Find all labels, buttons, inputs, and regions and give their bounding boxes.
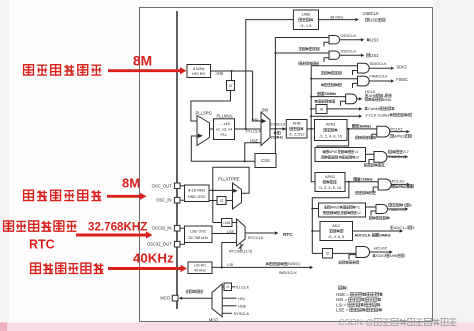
label PCLK2 — [392, 179, 405, 184]
node SYSCLK junction to I2S rail — [274, 128, 276, 130]
wire tap to ADC box — [312, 230, 320, 232]
svg-text:Cortex: Cortex — [368, 106, 380, 111]
label legend LSI — [336, 302, 380, 307]
gate AND HCLK enable — [346, 94, 357, 104]
svg-text:DMA: DMA — [383, 98, 392, 102]
arrow Cortex systick — [359, 107, 362, 110]
gate AND FSMC clock enable — [358, 76, 370, 86]
svg-text:HSE: HSE — [238, 304, 247, 309]
svg-text:48 MHz: 48 MHz — [330, 14, 343, 19]
background right gutter — [434, 0, 474, 331]
svg-text:SYSCLK: SYSCLK — [270, 122, 286, 127]
label peripheral clock enable I2S2 — [299, 62, 319, 65]
svg-text:40 kHz: 40 kHz — [194, 269, 206, 273]
label MCO pin — [160, 296, 170, 301]
block PLL multiplier — [214, 119, 235, 140]
label SYSCLK — [270, 122, 286, 127]
svg-text:LSI RC: LSI RC — [194, 264, 206, 268]
wire SYSCLK to AHB prescaler — [270, 128, 286, 130]
wire PCLK2 out — [391, 183, 406, 185]
wire tap to TIM2 box — [312, 208, 318, 210]
block CSS clock security — [255, 154, 276, 168]
label I2S3CLK — [341, 33, 357, 38]
svg-text:,: , — [338, 156, 339, 160]
node FSMC tap — [310, 78, 312, 80]
wire HCLK out — [357, 98, 359, 100]
label max 72MHz PCLK2 — [354, 177, 373, 181]
label HSI at SW input — [251, 117, 258, 122]
label to independent watchdog IWDG — [266, 262, 301, 266]
label red internal low speed clock — [31, 263, 104, 273]
label peripheral clock enable HCLK — [314, 100, 334, 103]
svg-text:USBCLK: USBCLK — [363, 11, 380, 16]
svg-text:/1, 2, 4, 8, 16: /1, 2, 4, 8, 16 — [320, 134, 342, 138]
node HSI junction to /2 — [230, 70, 232, 72]
label red external high speed clock — [24, 190, 102, 200]
label red 40KHz — [133, 251, 174, 266]
label I2S2CLK — [341, 49, 357, 54]
svg-text:TIMxCLK: TIMxCLK — [388, 207, 405, 212]
label PLLCLK MCO — [234, 285, 249, 290]
mux RTCSEL — [237, 219, 246, 246]
svg-text:40KHz: 40KHz — [133, 251, 174, 266]
red arrow to LSI — [108, 265, 187, 272]
label red 8M top — [133, 54, 152, 69]
label SW — [262, 107, 269, 112]
wire TIMXCLK enable stub — [369, 160, 374, 165]
wire PCLK1 — [347, 128, 377, 130]
node LSI junction — [221, 266, 223, 268]
arrow ADCCLK — [400, 229, 403, 232]
block divider /8 Cortex — [316, 105, 327, 114]
label SDIOCLK — [370, 61, 387, 66]
svg-text:I2S3: I2S3 — [370, 37, 379, 42]
label to I2S3 — [367, 37, 380, 42]
wire OSC_IN to HSE box — [180, 199, 185, 201]
wire I2S2CLK out — [340, 54, 361, 56]
wire HSE/128 into 128 box — [213, 222, 222, 224]
label FSMCCLK — [369, 74, 388, 79]
label peripheral clock enable TIMX — [364, 164, 384, 167]
svg-text:8M: 8M — [122, 176, 140, 191]
wire RTCSEL select stub with slash — [239, 244, 244, 251]
label legend HSI — [336, 297, 381, 302]
label PLLMUL — [217, 113, 234, 118]
svg-text:PLLCLK: PLLCLK — [246, 129, 261, 134]
arrow SDIO — [391, 67, 394, 70]
label to SDIO AHB interface — [373, 253, 405, 258]
wire PLLCLK up to USB prescaler — [246, 20, 294, 129]
svg-text:PLLXTPRE: PLLXTPRE — [218, 176, 240, 181]
label peripheral clock enable SDIO — [321, 71, 341, 74]
svg-text:/128: /128 — [223, 221, 230, 225]
svg-text:,: , — [340, 211, 341, 215]
svg-text:8M: 8M — [133, 54, 152, 69]
wire RTCCLK — [245, 232, 275, 234]
wire 128 to RTCSEL — [232, 222, 237, 224]
svg-text:/1, 2, 4, 8, 16: /1, 2, 4, 8, 16 — [319, 186, 341, 190]
gate AND TIMXCLK enable — [374, 152, 387, 163]
node FCLK tap — [310, 115, 312, 117]
svg-text:HSE OSC: HSE OSC — [188, 194, 206, 199]
svg-text:HSI: HSI — [217, 71, 224, 76]
svg-text:72MHz: 72MHz — [361, 178, 373, 182]
label TIMxCLK2 — [388, 207, 405, 212]
wire PLLXTPRE out loop — [213, 167, 249, 222]
pin OSC32_IN — [174, 225, 180, 231]
svg-text:OSC32_IN: OSC32_IN — [152, 226, 172, 231]
wire FCLK — [311, 115, 359, 117]
wire PCLK2 to TIM2 multiplier — [312, 182, 349, 254]
svg-text:ADCCLK: ADCCLK — [355, 234, 372, 238]
label peripheral clock enable I2S3 — [299, 47, 319, 50]
gate AND SDIO AHB — [356, 247, 370, 258]
label red 32.768KHZ — [88, 221, 147, 234]
svg-text:ADC: ADC — [332, 224, 340, 228]
label HCLK — [365, 89, 376, 94]
wire MCO SYSCLK stub — [222, 312, 232, 314]
wire HCLK/2 out — [370, 251, 389, 253]
block HSE oscillator 4-16MHz — [185, 185, 210, 202]
wire MCO HSI stub — [222, 297, 236, 299]
label red RTC — [29, 238, 55, 252]
background left gutter — [0, 0, 9, 331]
arrow into MCO pin — [179, 297, 182, 300]
svg-text:RTCCLK: RTCCLK — [248, 235, 264, 240]
arrow TIMXCLK — [405, 155, 408, 158]
svg-text:PLLSRC: PLLSRC — [196, 110, 212, 115]
wire TIMXCLK out — [387, 156, 405, 158]
wire SDIO AHB enable stub — [349, 255, 356, 260]
label peripheral clock enable PCLK2 — [356, 191, 376, 194]
svg-text:32.768 kHz: 32.768 kHz — [188, 235, 208, 240]
label red low speed external clock — [4, 221, 77, 231]
pin OSC_IN — [174, 197, 180, 203]
label TIMXCLK — [388, 154, 406, 159]
label max 72MHz line2 — [271, 135, 283, 140]
wire main pin bus vertical — [176, 11, 178, 309]
label OSC32_IN — [152, 226, 172, 231]
label ADCCLK max 14MHz — [355, 233, 391, 237]
label PLLXTPRE — [218, 176, 240, 181]
wire HCLK rail — [311, 66, 357, 129]
node HCLK gate tap — [310, 96, 312, 98]
svg-text:4-16 MHz: 4-16 MHz — [188, 187, 205, 192]
arrow TIMxCLK2 — [405, 207, 408, 210]
label PCLK1 — [390, 126, 403, 131]
wire SYSCLK rail up to I2S gates — [275, 38, 329, 129]
node HSE junction — [212, 189, 214, 191]
wire HSE output — [209, 189, 233, 191]
wire USB prescaler output — [319, 19, 356, 21]
wire I2S2 clock — [275, 52, 329, 54]
label LSI — [227, 262, 233, 267]
svg-text:HSI: HSI — [238, 296, 245, 301]
gate AND PCLK2 enable — [378, 179, 391, 190]
svg-text:AHB: AHB — [368, 94, 376, 98]
svg-text:72MHz: 72MHz — [271, 135, 283, 140]
label max line1 — [274, 131, 281, 134]
label red 8M second — [122, 176, 140, 191]
svg-text:USB: USB — [369, 17, 378, 22]
wire I2S3CLK out — [340, 39, 361, 41]
wire LSE to RTCSEL — [212, 233, 237, 235]
wire TIMxCLK2 enable stub — [371, 211, 376, 216]
wire LSI out to IWDG — [212, 266, 310, 268]
label IWDGCLK — [279, 270, 298, 275]
label red internal high speed clock — [24, 65, 102, 75]
gate AND TIMxCLK2 enable — [376, 205, 388, 214]
wire MCO HSE stub — [222, 305, 236, 307]
wire FSMC enable stub — [353, 83, 358, 88]
wire HCLK gate clock — [311, 96, 345, 98]
label FCLK Cortex free running clock — [366, 112, 411, 117]
label OSC_OUT — [152, 183, 172, 188]
wire SDIO enable stub — [353, 71, 358, 76]
wire LSI up to RTCSEL — [222, 243, 237, 268]
wire PLLSRC bottom feed — [191, 136, 255, 161]
label legend HSE — [336, 292, 383, 297]
svg-text:72MHz: 72MHz — [324, 92, 336, 96]
wire HSI to /2 divider — [231, 71, 233, 81]
svg-text:OSC32_OUT: OSC32_OUT — [147, 242, 172, 247]
label MCO under mux — [209, 317, 219, 322]
label to timers 2-7 — [388, 149, 409, 154]
mux PLLSRC — [197, 116, 210, 146]
svg-text:LSE: LSE — [227, 229, 235, 234]
svg-text::: : — [347, 285, 348, 290]
diagram frame — [140, 8, 433, 322]
label FSMC — [396, 77, 408, 82]
arrow IWDG — [310, 266, 313, 269]
arrow FCLK — [359, 115, 362, 118]
svg-text:FSMCCLK: FSMCCLK — [369, 74, 388, 79]
label RTCCLK — [248, 235, 264, 240]
block divider /2 HSI — [227, 81, 235, 91]
label peripheral clock enable TIMx2 — [369, 216, 389, 219]
label SYSCLK MCO — [234, 311, 250, 316]
svg-text:RTCSEL[1:0]: RTCSEL[1:0] — [229, 248, 252, 253]
svg-text:SDIOCLK: SDIOCLK — [370, 61, 387, 66]
wire HSI/2 to PLLSRC mux — [191, 91, 231, 122]
svg-text:/2: /2 — [220, 198, 223, 203]
label to Cortex system timer — [365, 106, 395, 111]
block divider /2 MCO — [224, 283, 232, 291]
wire MCO div2 stub — [222, 286, 224, 288]
svg-text:RTC: RTC — [283, 232, 293, 237]
svg-text:LSE OSC: LSE OSC — [190, 228, 207, 233]
wire I2S2 enable stub — [324, 58, 329, 62]
red arrow to OSC pins — [107, 193, 147, 200]
svg-text:=1: =1 — [354, 150, 358, 154]
node PCLK2 junction — [348, 181, 350, 183]
wire PCLK2 — [345, 181, 378, 183]
label PLLSRC — [196, 110, 212, 115]
svg-text:HCLK/2: HCLK/2 — [374, 246, 388, 251]
label legend title — [339, 285, 348, 290]
label to I2S2 — [367, 53, 380, 58]
block divider /2 HSE — [217, 197, 226, 205]
wire div8 out Cortex systick — [327, 108, 359, 110]
svg-text:x2, x3, x4: x2, x3, x4 — [216, 127, 233, 132]
label peripheral clock enable FSMC — [321, 83, 341, 86]
svg-text:..., x16: ..., x16 — [218, 121, 230, 126]
svg-text:FSMC: FSMC — [396, 77, 408, 82]
label 48 MHz — [330, 14, 343, 19]
wire HSE to /2 — [209, 200, 217, 202]
svg-text:PLL: PLL — [221, 132, 229, 137]
label to APB2 peripherals — [392, 184, 413, 189]
svg-text:/2: /2 — [226, 285, 229, 289]
svg-text:x2: x2 — [357, 211, 361, 215]
pin OSC_OUT — [174, 183, 180, 189]
wire AHB to APB1 — [307, 128, 315, 130]
svg-text:OSC_IN: OSC_IN — [156, 198, 171, 203]
wire PLL output PLLCLK to SW — [235, 128, 262, 130]
label PLLCLK — [246, 129, 261, 134]
label RTCSEL[1:0] — [229, 248, 252, 253]
svg-text:APB2: APB2 — [331, 206, 340, 210]
red arrow to HSI — [108, 67, 187, 74]
arrow to I2S2 — [361, 54, 364, 57]
wire ADCCLK out — [353, 230, 400, 232]
wire HSI output to right — [211, 70, 253, 72]
node HCLK rail junction — [310, 128, 312, 130]
label to APB1 peripherals — [391, 133, 412, 138]
svg-text:HSI: HSI — [251, 117, 258, 122]
wire HSI down to SW mux — [253, 71, 261, 121]
label peripheral clock enable SDIO AHB — [338, 261, 358, 264]
svg-text:CSDN @: CSDN @ — [339, 317, 374, 327]
block APB1 timer multiplier — [315, 148, 366, 162]
block ADC prescaler — [320, 222, 353, 241]
wire to div8 — [311, 108, 316, 110]
block USB prescaler — [293, 10, 318, 30]
label SDIO — [397, 64, 407, 69]
svg-text:/1, 2..512: /1, 2..512 — [289, 133, 305, 137]
label OSC32_OUT — [147, 242, 172, 247]
bottom left pink square — [0, 323, 7, 331]
svg-text:APB1: APB1 — [394, 133, 405, 138]
svg-text:SW: SW — [262, 107, 269, 112]
svg-text:PLLCLK: PLLCLK — [234, 285, 249, 290]
svg-text:LSI: LSI — [227, 262, 233, 267]
node ADC tap — [311, 230, 313, 232]
label to ADC 1 2 3 — [390, 225, 415, 230]
svg-text:IWDGCLK: IWDGCLK — [279, 270, 298, 275]
wire FSMCCLK out — [369, 80, 390, 82]
label LSE — [227, 229, 235, 234]
label OSC_IN — [156, 198, 171, 203]
svg-text:/2, 4, 6, 8: /2, 4, 6, 8 — [328, 235, 344, 239]
block APB2 prescaler — [315, 173, 345, 192]
label to AHB bus core — [365, 94, 392, 98]
svg-text:SDIO: SDIO — [376, 253, 386, 258]
label HSE at SW input — [250, 139, 259, 144]
arrow PCLK2 — [407, 183, 410, 186]
wire HSE to SW mux — [245, 143, 261, 162]
wire I2S3 enable stub — [324, 42, 329, 46]
node I2S2 tap — [274, 52, 276, 54]
label HCLK/2 — [374, 246, 388, 251]
arrow RTC — [275, 231, 278, 234]
svg-text:OSC_OUT: OSC_OUT — [152, 183, 172, 188]
svg-text:CSS: CSS — [261, 158, 270, 163]
block APB1 prescaler — [315, 120, 348, 141]
label to timers 1 and 8 — [389, 202, 413, 207]
gate AND I2S3 clock enable — [329, 36, 340, 44]
svg-text:(IWDG): (IWDG) — [287, 262, 301, 266]
svg-text:MCO: MCO — [160, 296, 170, 301]
wire PCLK1 out — [390, 131, 406, 133]
wire rail to APB2 — [311, 129, 315, 182]
pin MCO — [172, 295, 178, 301]
svg-text:LSE =: LSE = — [336, 307, 349, 312]
arrow PCLK1 — [406, 130, 409, 133]
svg-text:APB1: APB1 — [326, 122, 336, 126]
svg-text:PCLK1: PCLK1 — [390, 126, 403, 131]
bottom pink strip — [0, 323, 474, 331]
block LSI RC 40kHz — [188, 262, 212, 274]
wire HCLK enable stub — [341, 101, 346, 105]
watermark CSDN — [339, 317, 457, 327]
wire div2 to SDIO AHB gate — [333, 252, 357, 254]
node div8 tap — [310, 108, 312, 110]
label to USB interface — [366, 17, 385, 22]
svg-text:/1, 1.5: /1, 1.5 — [300, 23, 312, 28]
red arrow to OSC32 pins — [76, 231, 153, 238]
arrow into AHB prescaler — [283, 127, 286, 130]
block LSE oscillator 32.768kHz — [185, 226, 213, 243]
wire SDIOCLK out — [369, 67, 390, 69]
gate AND SDIO clock enable — [358, 63, 370, 73]
svg-text:I2S2: I2S2 — [370, 53, 379, 58]
wire OSC32_IN to LSE box — [180, 227, 185, 229]
wire PCLK2 enable stub — [373, 187, 378, 192]
arrow HCLK/2 — [389, 250, 392, 253]
wire PCLK1 to TIM multiplier box — [317, 129, 349, 148]
wire TIM box to TIMXCLK gate — [366, 153, 375, 155]
wire OSC32_OUT to LSE box — [180, 243, 185, 245]
mux PLLXTPRE — [233, 183, 242, 209]
svg-text:SDIO: SDIO — [397, 64, 407, 69]
svg-text:ADC1: ADC1 — [394, 225, 405, 230]
arrow HCLK — [359, 97, 362, 100]
wire OSC_OUT to HSE box — [180, 185, 185, 187]
svg-text:RTC: RTC — [29, 238, 55, 252]
wire HSE/2 to PLLXTPRE — [226, 200, 233, 202]
label max 72MHz HCLK — [317, 92, 336, 96]
label HSI — [217, 71, 224, 76]
svg-text:I2S2CLK: I2S2CLK — [341, 49, 357, 54]
block HSI RC oscillator 8MHz — [187, 65, 211, 78]
node PLLCLK junction — [245, 128, 247, 130]
wire MCO mux to pin — [182, 297, 212, 299]
svg-text:AHB: AHB — [293, 122, 301, 126]
label HSE MCO — [238, 304, 247, 309]
svg-text:/2: /2 — [326, 251, 329, 256]
svg-text:USB: USB — [302, 11, 311, 16]
svg-text:HSI RC: HSI RC — [192, 71, 206, 76]
svg-text:14MHz: 14MHz — [379, 234, 391, 238]
label RTC — [283, 232, 293, 237]
gate AND PCLK1 enable — [377, 126, 390, 137]
label max 36MHz — [352, 124, 371, 128]
svg-text:APB2: APB2 — [325, 175, 335, 179]
arrow to I2S3 — [361, 38, 364, 41]
mux SW system clock selector — [261, 112, 270, 146]
block AHB prescaler — [286, 120, 307, 139]
